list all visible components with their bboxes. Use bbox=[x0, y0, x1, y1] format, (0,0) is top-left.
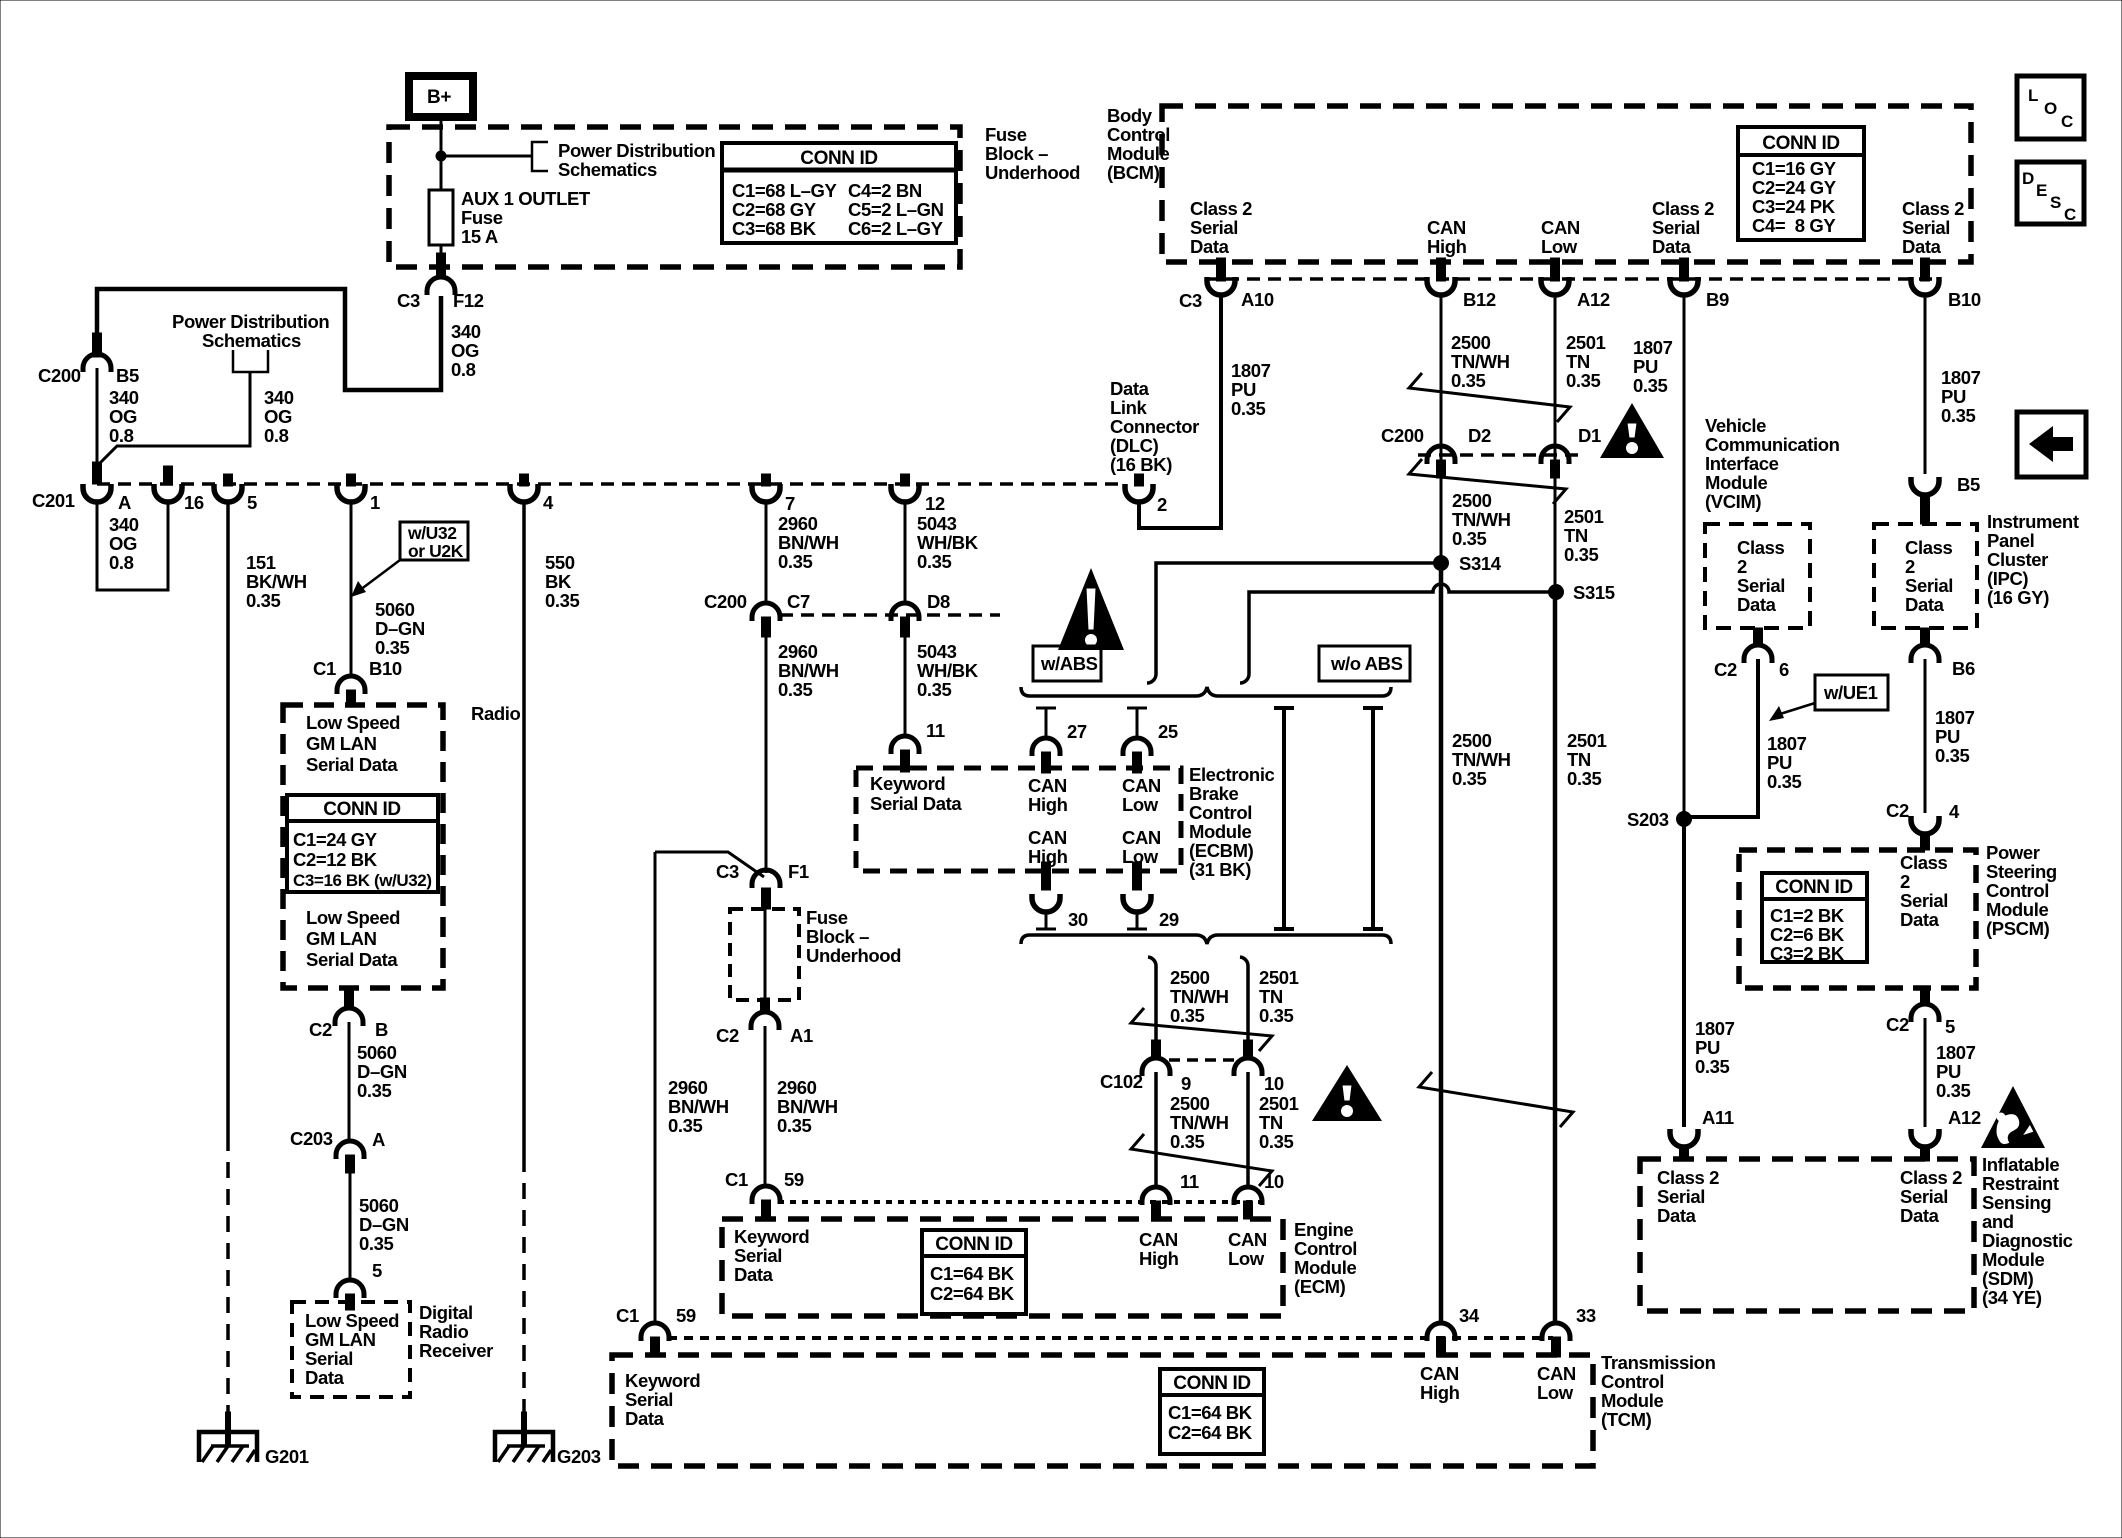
svg-text:Serial: Serial bbox=[1657, 1186, 1705, 1207]
svg-text:C1=64 BK: C1=64 BK bbox=[1168, 1402, 1253, 1423]
connector C200/B5 terminal bbox=[83, 354, 111, 372]
svg-text:C4=2 BN: C4=2 BN bbox=[848, 180, 922, 201]
svg-text:C2: C2 bbox=[309, 1019, 332, 1040]
svg-text:D2: D2 bbox=[1468, 425, 1491, 446]
svg-text:C2=64 BK: C2=64 BK bbox=[1168, 1422, 1253, 1443]
svg-text:O: O bbox=[2044, 99, 2057, 118]
TCM label CAN Low bbox=[1537, 1363, 1576, 1403]
svg-text:C1=68 L–GY: C1=68 L–GY bbox=[732, 180, 838, 201]
svg-text:11: 11 bbox=[1180, 1171, 1199, 1192]
connector C102 pin 9 terminal bbox=[1142, 1058, 1170, 1076]
svg-text:Data: Data bbox=[305, 1367, 345, 1388]
svg-text:C2=64 BK: C2=64 BK bbox=[930, 1283, 1015, 1304]
connector TCM C1/59 stub bbox=[651, 1337, 660, 1357]
wire VCIM to S203 bbox=[1684, 659, 1758, 817]
BCM label CAN High bbox=[1427, 217, 1467, 257]
svg-text:Diagnostic: Diagnostic bbox=[1982, 1230, 2073, 1251]
connector IPC B5 terminal bbox=[1911, 477, 1939, 495]
arrow from w/U32 box to wire bbox=[351, 560, 400, 597]
connector ECBM pin 27 terminal bbox=[1032, 738, 1060, 756]
fuse block underhood small dashed box bbox=[730, 909, 799, 1000]
VCIM label Class 2 Serial Data bbox=[1737, 537, 1785, 615]
svg-text:PU: PU bbox=[1767, 752, 1792, 773]
svg-text:D–GN: D–GN bbox=[375, 618, 425, 639]
svg-text:0.35: 0.35 bbox=[359, 1233, 394, 1254]
connector keyword pin 11 terminal bbox=[891, 736, 919, 754]
CONN ID table ECM bbox=[922, 1230, 1026, 1314]
pin label 4 bbox=[543, 492, 554, 513]
svg-text:Interface: Interface bbox=[1705, 453, 1779, 474]
svg-text:CAN: CAN bbox=[1139, 1229, 1178, 1250]
svg-text:Serial: Serial bbox=[625, 1389, 673, 1410]
svg-text:Low Speed: Low Speed bbox=[306, 712, 400, 733]
wire label 550 BK 0.35 bbox=[545, 552, 580, 611]
connector TCM C1/59 terminal bbox=[641, 1323, 669, 1341]
wire label 2500 TN/WH 0.35 (C102 upper) bbox=[1170, 967, 1229, 1026]
connector ECM pin 11 stub bbox=[1152, 1201, 1161, 1219]
svg-text:Module: Module bbox=[1107, 143, 1169, 164]
svg-text:Keyword: Keyword bbox=[734, 1226, 809, 1247]
svg-text:5: 5 bbox=[372, 1260, 382, 1281]
svg-text:D: D bbox=[2022, 169, 2034, 188]
svg-text:A10: A10 bbox=[1241, 289, 1274, 310]
svg-text:B10: B10 bbox=[369, 658, 402, 679]
connector label C102 bbox=[1100, 1071, 1143, 1092]
pin label A (C203) bbox=[372, 1129, 385, 1150]
connector ECBM pin 29 stub bbox=[1133, 862, 1142, 890]
svg-text:Keyword: Keyword bbox=[625, 1370, 700, 1391]
wire 550 BK solid bbox=[522, 501, 526, 1156]
wire 340 OG from power distribution to C201 A bbox=[99, 372, 250, 464]
svg-text:B12: B12 bbox=[1463, 289, 1496, 310]
pin label C2 (PSCM top) bbox=[1886, 800, 1909, 821]
wire to power distribution reference bbox=[441, 155, 532, 158]
wire label 340 OG 0.8 (pin A) bbox=[109, 514, 139, 573]
connector C200/D8 terminal bbox=[891, 603, 919, 621]
svg-text:Data: Data bbox=[1657, 1205, 1697, 1226]
svg-text:Schematics: Schematics bbox=[558, 159, 657, 180]
wire label 1807 PU 0.35 (A11) bbox=[1695, 1018, 1735, 1077]
connector C201 pin 5 stub bbox=[224, 474, 233, 486]
twisted pair crossover below C102 bbox=[1131, 1134, 1272, 1186]
svg-text:0.35: 0.35 bbox=[1452, 768, 1487, 789]
CONN ID table PSCM bbox=[1762, 873, 1867, 964]
connector radio C1/B10 stub bbox=[347, 690, 356, 706]
pin label A11 bbox=[1702, 1107, 1734, 1128]
connector SDM A11 stub bbox=[1680, 1146, 1689, 1161]
connector radio C2/B stub bbox=[345, 988, 354, 1008]
svg-text:Receiver: Receiver bbox=[419, 1340, 493, 1361]
wire 2501 TN below brace bbox=[1240, 957, 1248, 1042]
svg-text:1: 1 bbox=[370, 492, 380, 513]
svg-text:C1: C1 bbox=[616, 1305, 639, 1326]
svg-text:C1: C1 bbox=[725, 1169, 748, 1190]
wire label 1807 PU 0.35 (B10) bbox=[1941, 367, 1981, 426]
wire label 2500 TN/WH 0.35 (B12) bbox=[1451, 332, 1510, 391]
wire keyword branch to TCM C1 bbox=[655, 852, 764, 877]
pin label 5 bbox=[247, 492, 257, 513]
wire B+ to fuse bbox=[440, 117, 443, 190]
connector BCM pin B9 terminal bbox=[1670, 277, 1698, 295]
svg-text:CONN ID: CONN ID bbox=[323, 799, 400, 820]
connector DLC pin 2 terminal bbox=[1125, 484, 1153, 502]
svg-text:(PSCM): (PSCM) bbox=[1986, 918, 2050, 939]
wire label 5043 WH/BK 0.35 upper bbox=[917, 513, 979, 572]
wire 2500 TN/WH below brace bbox=[1148, 957, 1156, 1042]
inline connector TCM dotted row bbox=[668, 1336, 1553, 1340]
svg-text:1807: 1807 bbox=[1935, 707, 1975, 728]
svg-text:CONN ID: CONN ID bbox=[935, 1234, 1012, 1255]
wire label 340 OG 0.8 (F12) bbox=[451, 321, 481, 380]
connector IPC B6 terminal bbox=[1911, 645, 1939, 663]
svg-text:0.35: 0.35 bbox=[1259, 1005, 1294, 1026]
splice S315 bbox=[1548, 584, 1564, 600]
svg-text:1807: 1807 bbox=[1936, 1042, 1976, 1063]
svg-text:C1=24 GY: C1=24 GY bbox=[293, 829, 378, 850]
label Inflatable Restraint Sensing and Diagnostic Module (SDM) (34 YE) bbox=[1982, 1154, 2073, 1308]
wire 2500 TN/WH to ECM pin 11 bbox=[1154, 1072, 1158, 1188]
svg-text:Fuse: Fuse bbox=[985, 124, 1027, 145]
svg-text:Connector: Connector bbox=[1110, 416, 1199, 437]
svg-text:Low: Low bbox=[1537, 1382, 1574, 1403]
connector ECBM pin 30 stub bbox=[1042, 862, 1051, 890]
connector BCM pin A12 terminal bbox=[1541, 277, 1569, 295]
wire 550 BK dashed continuation to G203 bbox=[522, 1156, 526, 1414]
svg-text:Fuse: Fuse bbox=[806, 907, 848, 928]
svg-text:Data: Data bbox=[1900, 909, 1940, 930]
svg-text:Data: Data bbox=[1190, 236, 1230, 257]
svg-text:0.35: 0.35 bbox=[917, 679, 952, 700]
svg-text:C4= 8 GY: C4= 8 GY bbox=[1752, 215, 1836, 236]
connector VCIM C2/6 terminal bbox=[1744, 645, 1772, 663]
svg-text:B10: B10 bbox=[1948, 289, 1981, 310]
svg-text:Control: Control bbox=[1294, 1238, 1357, 1259]
svg-text:Serial: Serial bbox=[305, 1348, 353, 1369]
svg-text:Underhood: Underhood bbox=[806, 945, 901, 966]
connector C201 pin 12 terminal bbox=[891, 484, 919, 502]
reference box left arrow bbox=[2017, 412, 2086, 477]
splice S314 bbox=[1433, 555, 1449, 571]
svg-text:PU: PU bbox=[1633, 356, 1658, 377]
IPC label Class 2 Serial Data bbox=[1905, 537, 1953, 615]
svg-text:OG: OG bbox=[264, 406, 292, 427]
splice S203 bbox=[1676, 811, 1692, 827]
svg-text:C2=12 BK: C2=12 BK bbox=[293, 849, 378, 870]
warning triangle right bbox=[1600, 403, 1664, 458]
connector PSCM C2/5 stub bbox=[1921, 988, 1930, 1004]
svg-text:A11: A11 bbox=[1702, 1107, 1734, 1128]
svg-text:C203: C203 bbox=[290, 1128, 333, 1149]
svg-text:10: 10 bbox=[1264, 1171, 1284, 1192]
BCM label Class 2 Serial Data right bbox=[1902, 198, 1964, 257]
svg-text:CAN: CAN bbox=[1122, 827, 1161, 848]
connector C200/D1 terminal bbox=[1541, 446, 1569, 464]
svg-text:(31 BK): (31 BK) bbox=[1189, 859, 1251, 880]
pin label C3 (F1) bbox=[716, 861, 739, 882]
svg-text:B+: B+ bbox=[427, 87, 451, 108]
svg-text:Serial Data: Serial Data bbox=[306, 754, 398, 775]
svg-text:Engine: Engine bbox=[1294, 1219, 1353, 1240]
svg-text:1807: 1807 bbox=[1633, 337, 1673, 358]
brace lower ECBM bbox=[1021, 935, 1391, 944]
module Transmission Control Module dashed box bbox=[612, 1355, 1593, 1466]
svg-text:CAN: CAN bbox=[1028, 827, 1067, 848]
svg-text:0.35: 0.35 bbox=[1170, 1005, 1205, 1026]
wire label 2501 TN 0.35 (right) bbox=[1567, 730, 1607, 789]
svg-text:0.8: 0.8 bbox=[109, 425, 134, 446]
svg-text:5060: 5060 bbox=[357, 1042, 397, 1063]
pin label 5 (PSCM) bbox=[1945, 1016, 1955, 1037]
pin label C1 (TCM keyword) bbox=[616, 1305, 639, 1326]
svg-text:Power Distribution: Power Distribution bbox=[558, 140, 715, 161]
svg-text:A12: A12 bbox=[1948, 1107, 1981, 1128]
splice label S203 bbox=[1627, 809, 1669, 830]
connector C201 pin 1 terminal bbox=[337, 484, 365, 502]
svg-text:Control: Control bbox=[1189, 802, 1252, 823]
connector TCM pin 34 terminal bbox=[1427, 1323, 1455, 1341]
svg-text:Class: Class bbox=[1905, 537, 1952, 558]
connector C201 pin 7 terminal bbox=[752, 484, 780, 502]
connector BCM pin A10 stub bbox=[1217, 258, 1226, 281]
svg-text:Link: Link bbox=[1110, 397, 1148, 418]
svg-text:Schematics: Schematics bbox=[202, 330, 301, 351]
svg-text:Module: Module bbox=[1294, 1257, 1356, 1278]
w/o ABS pass-through wire left bbox=[1274, 708, 1294, 929]
svg-text:2501: 2501 bbox=[1566, 332, 1606, 353]
svg-text:w/U32: w/U32 bbox=[407, 523, 457, 543]
connector ECM pin 10 terminal bbox=[1234, 1187, 1262, 1205]
pin label A12 (SDM) bbox=[1948, 1107, 1981, 1128]
pin label 4 bbox=[1949, 801, 1960, 822]
splice label S315 bbox=[1573, 582, 1615, 603]
svg-text:Control: Control bbox=[1601, 1371, 1664, 1392]
pin label D8 bbox=[927, 591, 950, 612]
svg-text:Low: Low bbox=[1228, 1248, 1265, 1269]
svg-text:PU: PU bbox=[1935, 726, 1960, 747]
pin label F12 bbox=[453, 290, 484, 311]
svg-text:TN/WH: TN/WH bbox=[1452, 749, 1511, 770]
svg-text:Serial: Serial bbox=[1190, 217, 1238, 238]
svg-text:E: E bbox=[2036, 181, 2047, 200]
svg-text:Module: Module bbox=[1189, 821, 1251, 842]
svg-text:(TCM): (TCM) bbox=[1601, 1409, 1652, 1430]
svg-text:0.35: 0.35 bbox=[917, 551, 952, 572]
label Radio bbox=[471, 703, 520, 724]
svg-text:C3: C3 bbox=[397, 290, 420, 311]
wire CAN High 2500 TN/WH lower bbox=[1439, 563, 1444, 1324]
svg-text:(ECM): (ECM) bbox=[1294, 1276, 1346, 1297]
wire 340 OG from F12 to C200 B5 bbox=[97, 289, 441, 390]
module Engine Control Module dashed box bbox=[722, 1219, 1283, 1316]
svg-text:Panel: Panel bbox=[1987, 530, 2034, 551]
svg-text:TN/WH: TN/WH bbox=[1452, 509, 1511, 530]
connector label C201 bbox=[32, 490, 75, 511]
svg-text:Data: Data bbox=[1900, 1205, 1940, 1226]
svg-text:B5: B5 bbox=[116, 365, 139, 386]
svg-text:Low Speed: Low Speed bbox=[305, 1310, 399, 1331]
svg-text:Electronic: Electronic bbox=[1189, 764, 1275, 785]
svg-text:340: 340 bbox=[109, 387, 139, 408]
svg-text:S314: S314 bbox=[1459, 553, 1502, 574]
svg-text:0.35: 0.35 bbox=[1935, 745, 1970, 766]
svg-text:L: L bbox=[2028, 86, 2038, 105]
module Digital Radio Receiver dashed box bbox=[292, 1302, 410, 1397]
pin label C2 (VCIM) bbox=[1714, 659, 1737, 680]
connector C201 pin 7 stub bbox=[762, 474, 771, 486]
TCM label Keyword Serial Data bbox=[625, 1370, 700, 1429]
twisted pair crossover TCM bbox=[1419, 1072, 1573, 1127]
svg-text:w/o ABS: w/o ABS bbox=[1330, 653, 1403, 674]
ECBM pin 29 lead bbox=[1127, 911, 1147, 929]
reference box DESC bbox=[2017, 162, 2084, 224]
svg-text:A12: A12 bbox=[1577, 289, 1610, 310]
svg-text:Module: Module bbox=[1601, 1390, 1663, 1411]
svg-text:12: 12 bbox=[925, 493, 945, 514]
PSCM label Class 2 Serial Data bbox=[1900, 852, 1948, 930]
svg-text:340: 340 bbox=[264, 387, 294, 408]
svg-text:(34 YE): (34 YE) bbox=[1982, 1287, 2042, 1308]
svg-text:or U2K: or U2K bbox=[408, 541, 464, 561]
svg-text:4: 4 bbox=[1949, 801, 1960, 822]
pin label A10 bbox=[1241, 289, 1274, 310]
wire S314 branch to ECBM bbox=[1147, 563, 1441, 683]
svg-text:Transmission: Transmission bbox=[1601, 1352, 1716, 1373]
svg-text:5043: 5043 bbox=[917, 513, 957, 534]
label Power Distribution Schematics bbox=[558, 140, 715, 180]
svg-text:C2: C2 bbox=[1886, 800, 1909, 821]
svg-text:w/UE1: w/UE1 bbox=[1823, 682, 1878, 703]
wire 5043 WH/BK lower bbox=[904, 637, 907, 737]
svg-text:B6: B6 bbox=[1952, 658, 1975, 679]
pin label 7 bbox=[785, 493, 795, 514]
svg-text:7: 7 bbox=[785, 493, 795, 514]
connector ECM C1/59 terminal bbox=[752, 1186, 780, 1204]
inline connector C200 D2-D1 dashed row bbox=[1418, 453, 1582, 457]
brace upper ECBM bbox=[1021, 687, 1391, 696]
svg-text:Class: Class bbox=[1737, 537, 1784, 558]
svg-text:2500: 2500 bbox=[1170, 967, 1210, 988]
wire label 5060 D-GN 0.35 (C203 lower) bbox=[359, 1195, 409, 1254]
svg-text:Control: Control bbox=[1107, 124, 1170, 145]
connector C200/D1 stub bbox=[1551, 460, 1560, 478]
svg-text:C2=68 GY: C2=68 GY bbox=[732, 199, 817, 220]
pin label F1 bbox=[788, 861, 809, 882]
connector IPC B6 stub bbox=[1921, 628, 1930, 646]
pin label B10 bbox=[1948, 289, 1981, 310]
svg-text:Vehicle: Vehicle bbox=[1705, 415, 1766, 436]
pin label C1 (ECM keyword) bbox=[725, 1169, 748, 1190]
wire 5060 D-GN radio to C203 bbox=[348, 1022, 351, 1142]
label Body Control Module (BCM) bbox=[1107, 105, 1170, 183]
svg-text:TN: TN bbox=[1259, 986, 1283, 1007]
svg-text:0.35: 0.35 bbox=[1633, 375, 1668, 396]
svg-text:Class 2: Class 2 bbox=[1652, 198, 1714, 219]
svg-text:2500: 2500 bbox=[1452, 730, 1492, 751]
svg-text:27: 27 bbox=[1067, 721, 1087, 742]
svg-text:(SDM): (SDM) bbox=[1982, 1268, 2034, 1289]
SIR caution triangle bbox=[1981, 1086, 2045, 1148]
svg-text:Data: Data bbox=[1905, 594, 1945, 615]
svg-text:C200: C200 bbox=[38, 365, 81, 386]
wire 1807 PU B10 to B5 bbox=[1924, 294, 1927, 474]
svg-text:11: 11 bbox=[926, 720, 945, 741]
twisted pair crossover second bbox=[1409, 459, 1566, 504]
svg-text:9: 9 bbox=[1181, 1073, 1191, 1094]
svg-text:A: A bbox=[118, 492, 131, 513]
svg-text:Serial: Serial bbox=[1902, 217, 1950, 238]
svg-text:OG: OG bbox=[109, 406, 137, 427]
connector BCM pin B12 stub bbox=[1437, 258, 1446, 281]
ECBM pin 30 lead bbox=[1036, 911, 1056, 929]
wire label 340 OG 0.8 (B5) bbox=[109, 387, 139, 446]
svg-text:GM LAN: GM LAN bbox=[306, 928, 377, 949]
label Fuse Block - Underhood bbox=[985, 124, 1080, 183]
svg-text:PU: PU bbox=[1231, 379, 1256, 400]
svg-text:Serial: Serial bbox=[1905, 575, 1953, 596]
pin label B9 bbox=[1706, 289, 1729, 310]
svg-text:2960: 2960 bbox=[668, 1077, 708, 1098]
svg-text:(VCIM): (VCIM) bbox=[1705, 491, 1761, 512]
svg-text:B9: B9 bbox=[1706, 289, 1729, 310]
module ECBM dashed box with keyword serial data bbox=[856, 768, 1181, 871]
svg-text:C1=64 BK: C1=64 BK bbox=[930, 1263, 1015, 1284]
option box w/o ABS bbox=[1319, 646, 1410, 681]
svg-text:C1: C1 bbox=[313, 658, 336, 679]
svg-text:C2: C2 bbox=[716, 1025, 739, 1046]
svg-text:0.35: 0.35 bbox=[1767, 771, 1802, 792]
svg-text:BN/WH: BN/WH bbox=[777, 1096, 838, 1117]
svg-text:2501: 2501 bbox=[1259, 967, 1299, 988]
svg-text:1807: 1807 bbox=[1767, 733, 1807, 754]
ECBM label CAN High 1 bbox=[1028, 775, 1068, 815]
svg-text:and: and bbox=[1982, 1211, 2014, 1232]
svg-text:S315: S315 bbox=[1573, 582, 1615, 603]
pin label B12 bbox=[1463, 289, 1496, 310]
svg-text:Inflatable: Inflatable bbox=[1982, 1154, 2059, 1175]
splice label S314 bbox=[1459, 553, 1502, 574]
svg-text:C2: C2 bbox=[1714, 659, 1737, 680]
svg-text:Serial Data: Serial Data bbox=[306, 949, 398, 970]
pin label 2 bbox=[1157, 494, 1167, 515]
wire B5 to C201 A bbox=[96, 368, 99, 466]
module PSCM dashed box bbox=[1739, 850, 1976, 988]
wire label 5060 D-GN 0.35 (C203 upper) bbox=[357, 1042, 407, 1101]
pin label 10 (C102) bbox=[1264, 1073, 1284, 1094]
connector DRR pin 5 stub bbox=[346, 1294, 355, 1310]
svg-text:5060: 5060 bbox=[359, 1195, 399, 1216]
wire label 2960 BN/WH 0.35 (TCM) bbox=[668, 1077, 729, 1136]
pin label B5 bbox=[1957, 474, 1980, 495]
svg-text:Class 2: Class 2 bbox=[1657, 1167, 1719, 1188]
connector BCM pin B12 terminal bbox=[1427, 277, 1455, 295]
svg-text:C5=2 L–GN: C5=2 L–GN bbox=[848, 199, 944, 220]
svg-text:A: A bbox=[372, 1129, 385, 1150]
svg-text:Serial: Serial bbox=[1652, 217, 1700, 238]
svg-text:2: 2 bbox=[1157, 494, 1167, 515]
svg-text:550: 550 bbox=[545, 552, 575, 573]
wire label 2960 BN/WH 0.35 upper bbox=[778, 513, 839, 572]
connector C3/F1 terminal bbox=[752, 870, 780, 888]
pin label 6 bbox=[1779, 659, 1789, 680]
svg-text:0.35: 0.35 bbox=[1451, 370, 1486, 391]
label Transmission Control Module (TCM) bbox=[1601, 1352, 1716, 1430]
svg-text:Power Distribution: Power Distribution bbox=[172, 311, 329, 332]
pin label 34 bbox=[1459, 1305, 1480, 1326]
svg-text:C7: C7 bbox=[787, 591, 810, 612]
svg-text:2: 2 bbox=[1737, 556, 1747, 577]
svg-text:(BCM): (BCM) bbox=[1107, 162, 1160, 183]
svg-text:2501: 2501 bbox=[1567, 730, 1607, 751]
